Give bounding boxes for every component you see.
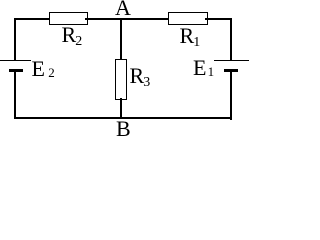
resistor R2 xyxy=(49,12,88,25)
wire: right branch lower (E1 to bottom rail) xyxy=(230,72,232,120)
wire: top rail, middle segment (R2 to R1 through node A) xyxy=(85,18,169,20)
resistor R3 xyxy=(115,59,127,100)
label R1 xyxy=(180,25,201,51)
battery E2 short thick plate xyxy=(9,69,23,72)
wire: top rail, left segment (E2 corner to R2) xyxy=(14,18,50,20)
wire: left branch lower (E2 to bottom rail) xyxy=(14,71,16,119)
wire: right branch upper (corner down to E1 plate) xyxy=(230,18,232,60)
wire: bottom rail (node B rail) xyxy=(14,117,232,119)
label E1 xyxy=(193,57,214,82)
label R2 xyxy=(62,24,83,50)
wire: R3 branch lower (R3 down to node B) xyxy=(120,98,122,119)
resistor R1 xyxy=(168,12,208,25)
node B label xyxy=(116,118,131,140)
battery E2 long plate xyxy=(0,60,31,62)
wire: R3 branch upper (node A down to R3) xyxy=(120,18,122,60)
node A label xyxy=(115,0,131,19)
wire: top rail, right segment (R1 to E1 corner) xyxy=(205,18,232,20)
battery E1 short thick plate xyxy=(224,69,238,72)
battery E1 long plate xyxy=(214,60,250,62)
wire: left branch upper (corner down to E2 plate) xyxy=(14,18,16,60)
label E2 xyxy=(32,58,55,83)
label R3 xyxy=(130,65,151,91)
